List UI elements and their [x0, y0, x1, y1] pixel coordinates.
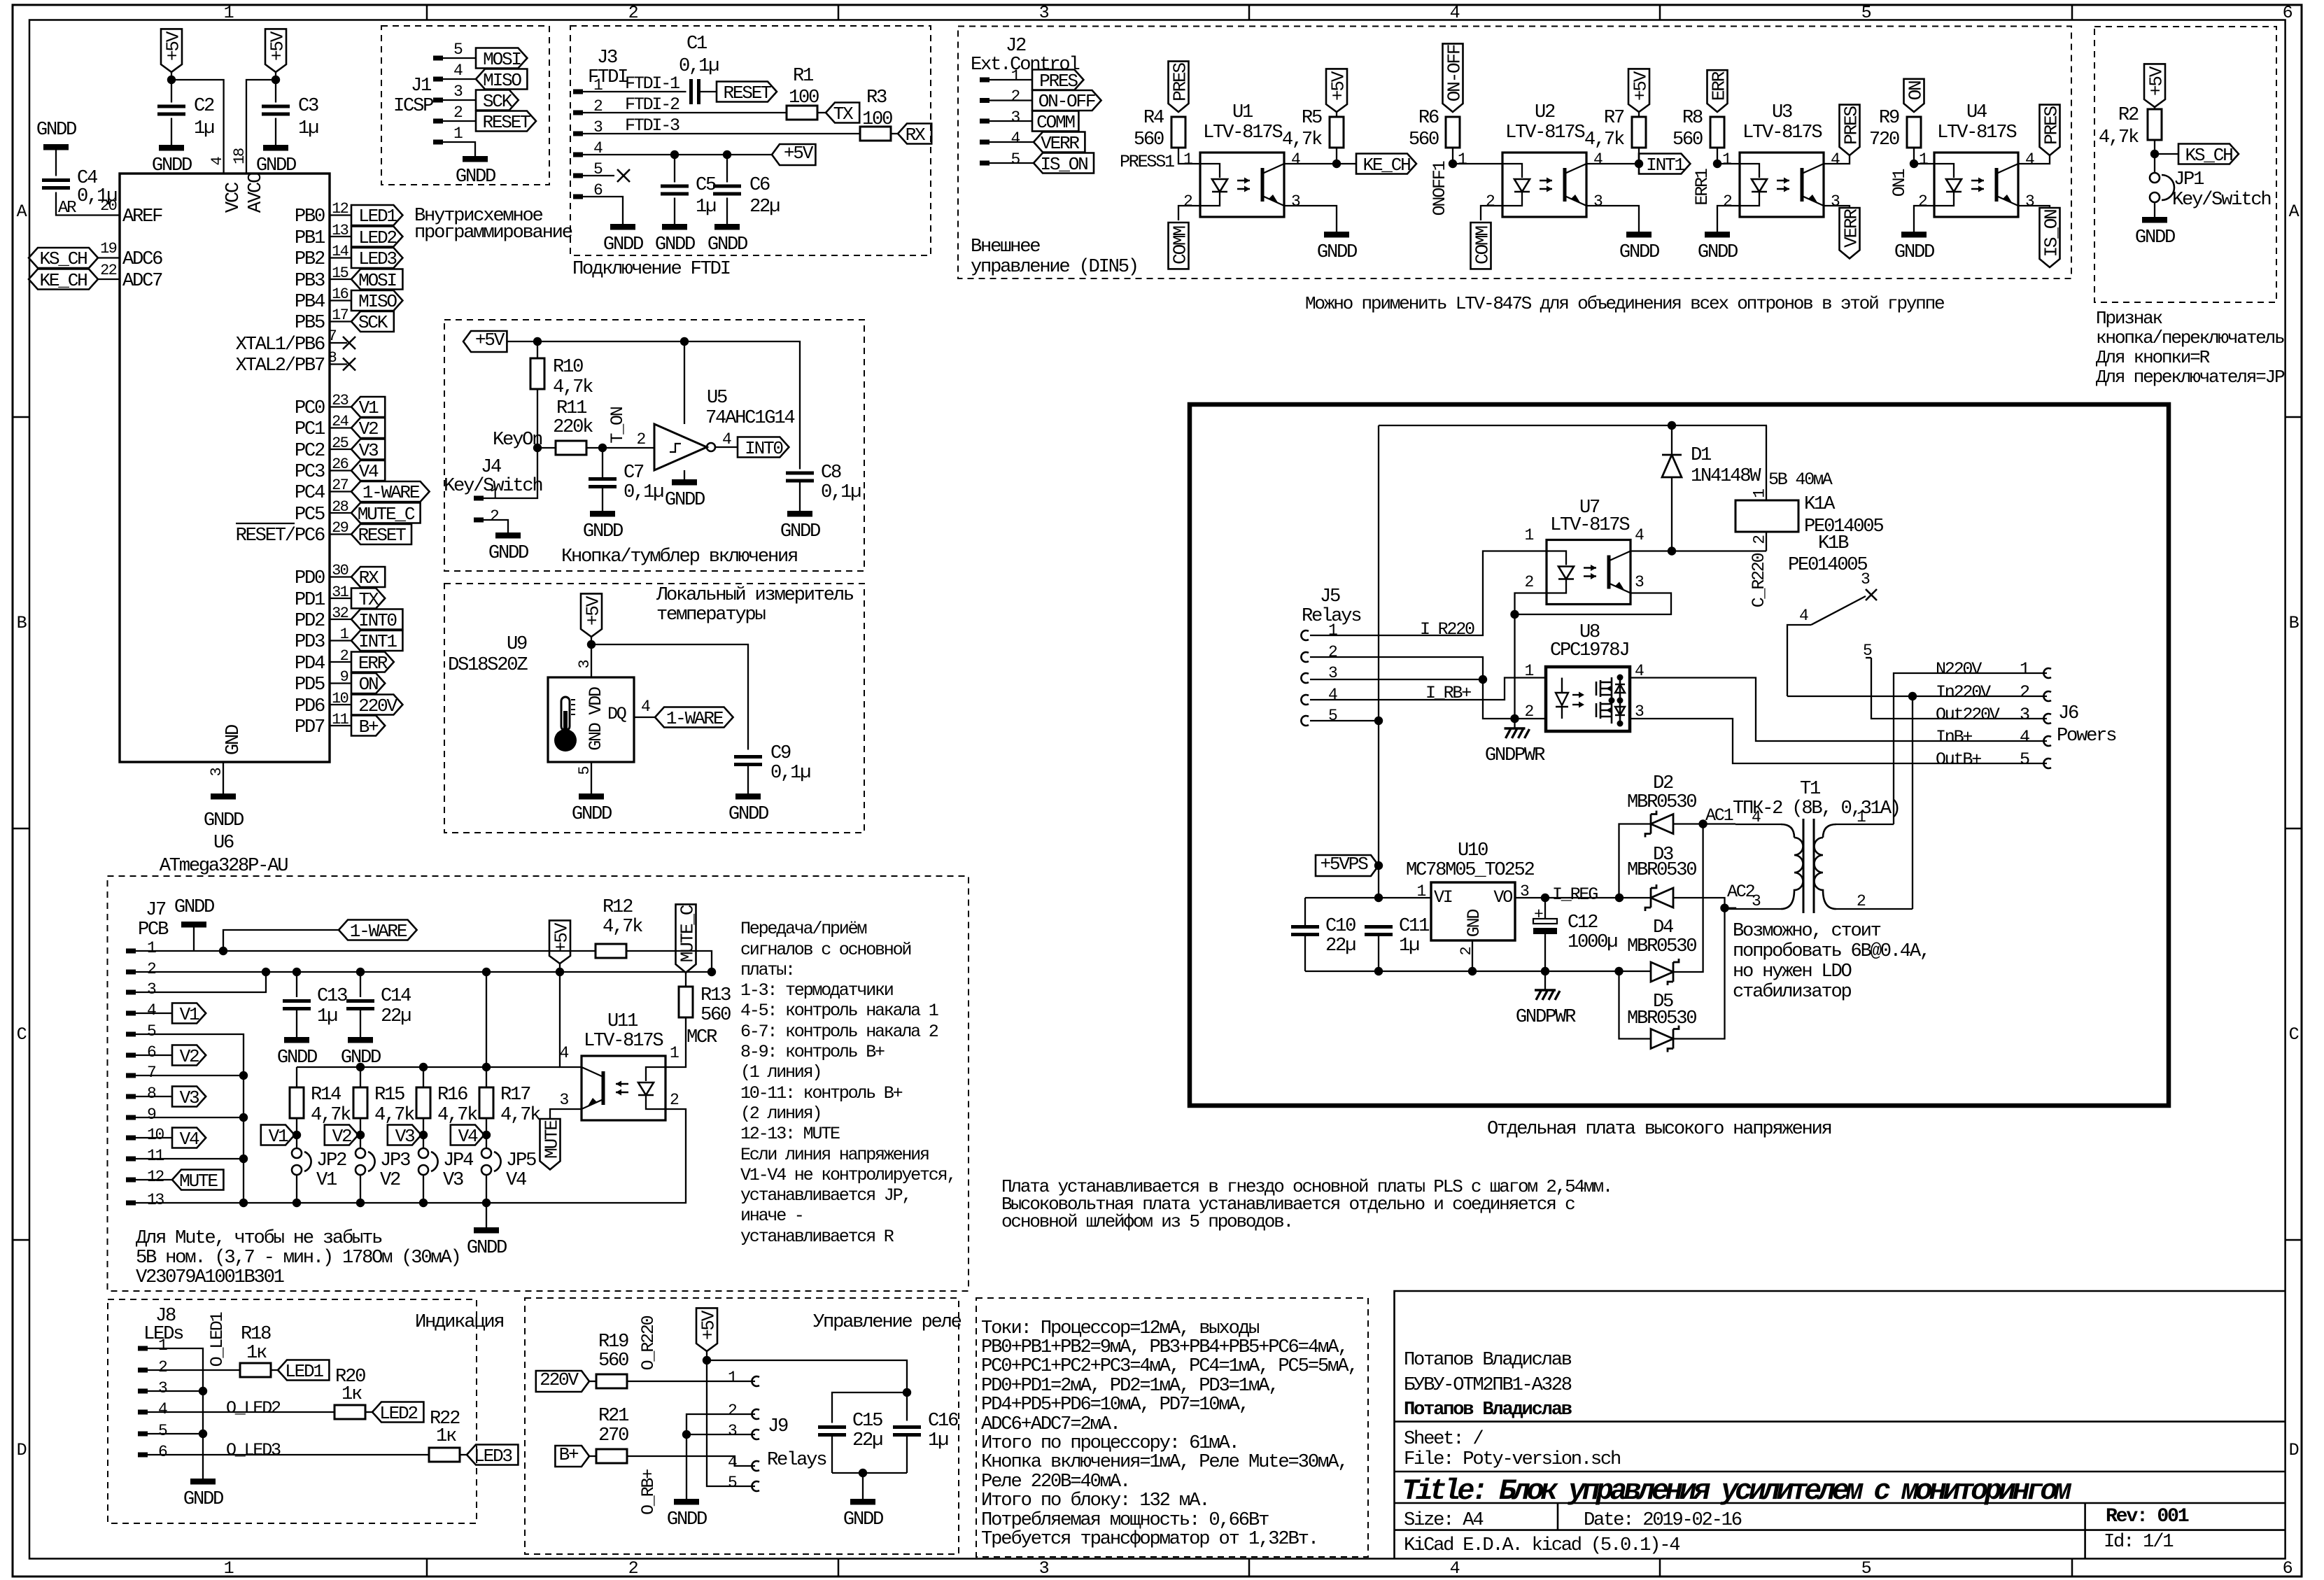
svg-text:V3: V3: [443, 1169, 463, 1191]
wire N220V: [1894, 673, 2047, 824]
svg-text:V2: V2: [180, 1046, 199, 1067]
svg-text:22µ: 22µ: [1325, 935, 1355, 957]
power flag +5V J4: [463, 330, 507, 352]
capacitor C4: [42, 167, 117, 207]
ground GNDD under U6: [211, 793, 236, 800]
svg-text:B: B: [2289, 613, 2300, 633]
junction: [1713, 160, 1721, 168]
svg-text:Внешнее: Внешнее: [971, 236, 1040, 258]
net label KS_CH at ADC6: [29, 240, 120, 269]
svg-text:стабилизатор: стабилизатор: [1733, 981, 1852, 1003]
svg-text:J1: J1: [411, 75, 431, 97]
svg-text:2: 2: [490, 507, 499, 526]
svg-text:AREF: AREF: [122, 206, 162, 227]
svg-text:KS_CH: KS_CH: [39, 248, 87, 269]
wire U1 pin2 to COMM: [1178, 192, 1200, 220]
svg-text:1: 1: [224, 3, 234, 23]
svg-text:VERR: VERR: [1041, 133, 1079, 154]
svg-text:Индикация: Индикация: [415, 1311, 503, 1333]
svg-text:1к: 1к: [341, 1383, 362, 1405]
svg-text:FTDI-3: FTDI-3: [625, 115, 679, 136]
svg-text:Требуется трансформатор от 1,3: Требуется трансформатор от 1,32Вт.: [981, 1528, 1318, 1550]
svg-text:2: 2: [1010, 87, 1020, 106]
svg-text:LED2: LED2: [379, 1403, 417, 1424]
svg-text:I_RB+: I_RB+: [1425, 683, 1471, 703]
resistor R6: [1409, 107, 1502, 164]
svg-text:1-WARE: 1-WARE: [362, 482, 420, 503]
svg-text:U6: U6: [213, 832, 234, 854]
svg-text:1: 1: [2020, 659, 2029, 679]
svg-text:4: 4: [1799, 607, 1808, 625]
svg-text:GNDD: GNDD: [603, 234, 643, 255]
junction: [533, 337, 689, 346]
svg-text:6: 6: [2283, 3, 2293, 23]
net label MUTE_C: [351, 503, 421, 526]
dashed box J3 FTDI: [570, 26, 931, 255]
svg-text:GNDD: GNDD: [728, 803, 768, 825]
svg-text:ERR: ERR: [1708, 71, 1729, 101]
net label SCK: [476, 90, 519, 113]
net label MISO: [476, 69, 527, 92]
ground GNDD J1: [456, 156, 495, 188]
svg-text:3: 3: [158, 1379, 167, 1397]
svg-text:RESET/PC6: RESET/PC6: [236, 525, 325, 546]
svg-text:2: 2: [1918, 192, 1927, 211]
svg-text:C5: C5: [696, 174, 716, 196]
wire U4 pin3 to IS_ON: [2018, 192, 2050, 211]
wire U3 pin2 to ground: [1717, 192, 1740, 232]
svg-text:O_LED1: O_LED1: [207, 1312, 227, 1367]
svg-text:Relays: Relays: [767, 1449, 826, 1471]
net label V3: [351, 439, 385, 462]
junction: [239, 1071, 248, 1207]
svg-text:2: 2: [1750, 535, 1768, 544]
svg-text:4,7k: 4,7k: [437, 1104, 477, 1126]
svg-text:R2: R2: [2118, 104, 2139, 126]
svg-text:PD3: PD3: [295, 631, 325, 653]
wire U1 pin3 to ground: [1284, 192, 1337, 232]
svg-text:XTAL2/PB7: XTAL2/PB7: [236, 355, 325, 376]
svg-text:0,1µ: 0,1µ: [77, 185, 117, 207]
svg-text:PB4: PB4: [295, 291, 325, 313]
wire: [330, 392, 351, 409]
svg-text:PRES: PRES: [1039, 71, 1078, 92]
wire O_LED2: [148, 1398, 334, 1418]
wire J4 pin1 to KeyOn: [484, 448, 537, 498]
svg-text:100: 100: [862, 108, 892, 130]
svg-text:In220V: In220V: [1936, 682, 1991, 703]
svg-text:22µ: 22µ: [749, 196, 780, 218]
net label RESET: [351, 524, 411, 546]
caption signal list: [740, 919, 955, 1247]
global label COMM flag: [1169, 223, 1191, 269]
power +5V above R5: [1326, 69, 1348, 112]
svg-text:25: 25: [332, 435, 348, 452]
svg-text:Size: A4: Size: A4: [1404, 1509, 1483, 1531]
junction: [262, 968, 716, 976]
svg-text:R12: R12: [603, 896, 633, 918]
svg-text:V1: V1: [359, 397, 379, 418]
global label IS_ON flag: [2040, 208, 2062, 267]
global label COMM flag 2: [1471, 223, 1493, 269]
svg-text:3: 3: [1291, 192, 1300, 211]
svg-text:1: 1: [1183, 150, 1192, 169]
optocoupler U11 LTV-817S: [559, 1010, 679, 1120]
transformer T1: [1725, 778, 1913, 913]
svg-text:ONOFF1: ONOFF1: [1430, 161, 1450, 216]
svg-text:R5: R5: [1302, 107, 1322, 129]
svg-text:C9: C9: [770, 742, 791, 764]
svg-text:22: 22: [100, 262, 116, 279]
svg-text:C8: C8: [821, 462, 841, 484]
power +5V above R2: [2144, 64, 2167, 107]
svg-text:8: 8: [147, 1085, 156, 1103]
svg-text:File: Poty-version.sch: File: Poty-version.sch: [1404, 1448, 1620, 1470]
svg-text:4: 4: [1010, 129, 1020, 148]
svg-text:KE_CH: KE_CH: [39, 270, 87, 291]
wire J5 pin3: [1310, 675, 1547, 719]
wire O_LED3: [148, 1440, 429, 1460]
net label 1-WARE: [655, 707, 733, 730]
resistor R7: [1584, 107, 1646, 164]
svg-text:1-3: термодатчики: 1-3: термодатчики: [740, 980, 893, 1001]
svg-text:сигналов с основной: сигналов с основной: [740, 940, 910, 960]
svg-text:15: 15: [332, 264, 348, 282]
wire U10 pin2: [1472, 940, 1473, 971]
wire: [330, 626, 351, 643]
svg-text:10: 10: [147, 1126, 164, 1144]
diode D3 MBR0530: [1619, 844, 1725, 911]
svg-text:(2 линия): (2 линия): [740, 1103, 821, 1124]
wire J4 pin2 to ground: [484, 520, 508, 532]
resistor R15: [353, 1067, 414, 1135]
ground GNDD under C7: [583, 511, 623, 542]
net label C_R220: [1749, 553, 1769, 607]
jumper JP2: [292, 1135, 346, 1203]
svg-text:иначе -: иначе -: [740, 1206, 803, 1226]
capacitor C15: [818, 1392, 907, 1473]
ground GNDD U9: [572, 793, 612, 825]
net label MOSI: [351, 269, 402, 292]
svg-text:23: 23: [332, 392, 348, 409]
svg-text:3: 3: [1039, 3, 1049, 23]
global label PRES flag: [1169, 62, 1191, 112]
power flag +5VPS: [1316, 854, 1383, 876]
svg-text:программирование: программирование: [414, 222, 572, 244]
svg-text:720: 720: [1869, 129, 1899, 150]
wire INT0: [715, 446, 738, 448]
svg-text:MOSI: MOSI: [483, 49, 521, 70]
svg-text:ERR1: ERR1: [1692, 169, 1712, 205]
svg-text:Date: 2019-02-16: Date: 2019-02-16: [1584, 1509, 1742, 1531]
svg-text:основной шлейфом из 5 проводов: основной шлейфом из 5 проводов.: [1001, 1211, 1293, 1232]
net label V1: [261, 1125, 301, 1148]
junction: [1635, 160, 1643, 168]
svg-text:D: D: [17, 1440, 27, 1460]
svg-text:AC1: AC1: [1705, 805, 1733, 826]
svg-text:PB2: PB2: [295, 248, 325, 270]
wire J5 pin5 to +5VPS rail: [1310, 717, 1383, 725]
svg-text:V4: V4: [359, 461, 379, 482]
svg-text:J3: J3: [597, 47, 617, 69]
ground GNDD J4: [488, 532, 528, 564]
svg-text:R7: R7: [1604, 107, 1624, 129]
ground GNDD U1: [1317, 232, 1357, 263]
svg-text:LED1: LED1: [358, 206, 397, 227]
resistor R18: [240, 1323, 278, 1377]
svg-text:3: 3: [453, 83, 463, 101]
svg-text:18: 18: [231, 148, 248, 164]
wire pin6 to ground: [583, 197, 623, 224]
svg-text:1: 1: [1722, 150, 1731, 169]
svg-text:560: 560: [1409, 129, 1439, 150]
svg-text:GNDD: GNDD: [667, 1509, 707, 1530]
svg-text:4,7k: 4,7k: [1584, 129, 1624, 150]
svg-text:4: 4: [722, 430, 731, 449]
svg-text:4: 4: [147, 1001, 156, 1020]
global label MUTE flag: [540, 1119, 563, 1169]
ground GNDD JP1: [2135, 217, 2175, 248]
ground GNDD under C2: [152, 145, 192, 176]
svg-text:LED1: LED1: [285, 1361, 323, 1382]
svg-text:5: 5: [158, 1422, 167, 1440]
ground GNDD under U5: [665, 479, 705, 511]
svg-text:O_R220: O_R220: [638, 1316, 659, 1370]
svg-text:ON1: ON1: [1889, 169, 1910, 197]
svg-text:Подключение FTDI: Подключение FTDI: [572, 258, 730, 280]
net label V2: [325, 1125, 365, 1148]
connector J4 Key/Switch: [444, 456, 542, 526]
ground GNDD above C4: [36, 119, 76, 150]
svg-text:1-WARE: 1-WARE: [666, 708, 724, 729]
wire J7 pin2 +5V rail: [136, 971, 712, 973]
svg-text:4: 4: [1450, 3, 1460, 23]
svg-text:4: 4: [158, 1400, 167, 1418]
svg-text:11: 11: [147, 1147, 164, 1165]
dashed box indication J8: [108, 1299, 477, 1523]
wire: [330, 584, 351, 601]
capacitor C8: [786, 462, 861, 511]
caption separate HV board: [1487, 1118, 1831, 1140]
svg-text:4: 4: [1593, 150, 1603, 169]
svg-text:4: 4: [2020, 727, 2029, 747]
svg-text:GNDD: GNDD: [183, 1488, 223, 1510]
svg-text:4: 4: [453, 62, 463, 80]
svg-text:GNDD: GNDD: [36, 119, 76, 141]
svg-text:3: 3: [728, 1422, 737, 1440]
junction AC1: [1698, 805, 1735, 828]
svg-text:Отдельная плата высокого напря: Отдельная плата высокого напряжения: [1487, 1118, 1831, 1140]
svg-text:INT0: INT0: [745, 438, 783, 459]
relay switch K1B: [1787, 532, 2047, 719]
svg-text:V3: V3: [180, 1087, 199, 1108]
svg-text:V3: V3: [395, 1126, 415, 1147]
dashed box relay control J9: [525, 1298, 959, 1554]
svg-text:+5V: +5V: [784, 143, 814, 164]
wire J8 common: [148, 1348, 203, 1479]
svg-text:InB+: InB+: [1936, 727, 1972, 747]
svg-text:9: 9: [147, 1106, 156, 1124]
svg-text:LTV-817S: LTV-817S: [1550, 514, 1629, 536]
resistor R4: [1134, 107, 1185, 150]
resistor R19: [589, 1331, 755, 1388]
svg-text:74AHC1G14: 74AHC1G14: [705, 407, 794, 429]
resistor R14: [290, 1067, 351, 1135]
svg-text:V4: V4: [458, 1126, 478, 1147]
wire: [330, 200, 351, 218]
svg-text:GNDD: GNDD: [572, 803, 612, 825]
svg-text:16: 16: [332, 285, 348, 303]
wire J7 pin1 1-WARE: [136, 930, 596, 955]
svg-text:GNDD: GNDD: [256, 155, 296, 176]
svg-text:GNDD: GNDD: [1894, 241, 1934, 263]
svg-text:26: 26: [332, 456, 348, 473]
wire: [330, 264, 351, 282]
svg-text:2: 2: [628, 3, 638, 23]
svg-text:4: 4: [641, 698, 650, 716]
power +5V above R7: [1628, 69, 1651, 112]
diode D4 MBR0530: [1619, 824, 1703, 986]
svg-text:PC3: PC3: [295, 461, 325, 483]
caption local temperature meter: [656, 584, 854, 626]
svg-text:1µ: 1µ: [317, 1006, 337, 1027]
svg-text:13: 13: [147, 1191, 164, 1209]
svg-text:1к: 1к: [436, 1425, 456, 1447]
svg-text:1µ: 1µ: [194, 118, 214, 139]
jumper JP3: [355, 1135, 410, 1203]
svg-text:PD6: PD6: [295, 696, 325, 717]
caption board install note: [1001, 1176, 1612, 1232]
wire: [330, 668, 351, 686]
svg-text:5: 5: [453, 41, 463, 59]
wire J7 pin3 riser: [136, 972, 266, 992]
svg-text:4: 4: [1450, 1558, 1460, 1579]
svg-text:C2: C2: [194, 95, 214, 117]
svg-text:5В 40мА: 5В 40мА: [1768, 470, 1833, 490]
resistor R11: [553, 397, 654, 455]
wire O_LED1: [148, 1312, 240, 1370]
svg-text:FTDI-1: FTDI-1: [625, 73, 679, 94]
svg-text:ADC7: ADC7: [122, 270, 162, 292]
ic U8 CPC1978J: [1524, 621, 1644, 731]
svg-text:Id: 1/1: Id: 1/1: [2104, 1531, 2173, 1553]
svg-text:5: 5: [147, 1022, 156, 1041]
svg-text:AC2: AC2: [1727, 882, 1755, 902]
svg-text:JP3: JP3: [380, 1150, 410, 1171]
wire C15 C16 ground: [832, 1469, 907, 1499]
svg-text:5: 5: [2020, 749, 2029, 770]
svg-text:AVCC: AVCC: [245, 172, 267, 213]
svg-text:7: 7: [328, 327, 337, 345]
junction: [167, 76, 280, 84]
svg-text:MCR: MCR: [686, 1027, 717, 1048]
svg-text:R8: R8: [1682, 107, 1703, 129]
svg-text:J5: J5: [1320, 586, 1340, 607]
wire: [330, 477, 351, 494]
svg-text:+: +: [1534, 905, 1543, 924]
svg-text:V2: V2: [332, 1126, 351, 1147]
resistor R8: [1672, 107, 1740, 164]
net label LED2: [372, 1402, 423, 1425]
ground GNDD at J7 pin1: [174, 896, 214, 951]
svg-text:2: 2: [340, 647, 348, 665]
svg-text:+5V: +5V: [1630, 71, 1651, 101]
svg-text:Можно применить LTV-847S для о: Можно применить LTV-847S для объединения…: [1305, 293, 1944, 314]
svg-text:TX: TX: [833, 104, 854, 125]
svg-text:2: 2: [453, 104, 463, 122]
svg-text:MBR0530: MBR0530: [1627, 791, 1696, 813]
wire U4 pin2 to ground: [1914, 192, 1934, 232]
svg-text:INT0: INT0: [358, 610, 397, 631]
svg-text:Потапов Владислав: Потапов Владислав: [1404, 1349, 1572, 1371]
svg-text:C3: C3: [298, 95, 318, 117]
svg-text:4,7k: 4,7k: [2099, 127, 2139, 148]
global label ON flag: [1904, 79, 1927, 112]
resistor R13: [679, 973, 731, 1026]
svg-text:CPC1978J: CPC1978J: [1550, 640, 1628, 661]
svg-text:C_R220: C_R220: [1749, 553, 1769, 607]
caption FTDI connection: [572, 258, 730, 280]
svg-text:U10: U10: [1458, 840, 1488, 861]
svg-text:5В ном. (3,7 - мин.) 178Ом (30: 5В ном. (3,7 - мин.) 178Ом (30мА): [136, 1247, 460, 1269]
svg-text:220V: 220V: [540, 1369, 579, 1390]
svg-text:Потапов Владислав: Потапов Владислав: [1404, 1399, 1572, 1420]
net label RESET: [476, 111, 536, 134]
svg-text:MBR0530: MBR0530: [1627, 936, 1696, 957]
svg-text:GNDD: GNDD: [1317, 241, 1357, 263]
svg-text:R13: R13: [700, 985, 731, 1006]
wire: [330, 456, 351, 473]
title block: [1395, 1291, 2286, 1559]
ground GNDD U4: [1894, 232, 1934, 263]
svg-text:5: 5: [1861, 1558, 1871, 1579]
wire U2 pin4 INT1: [1586, 150, 1639, 169]
svg-text:I_REG: I_REG: [1552, 884, 1598, 905]
svg-text:PRES: PRES: [1840, 106, 1861, 145]
power +5V at VCC: [161, 29, 183, 72]
svg-text:PC5: PC5: [295, 504, 325, 526]
wire AVCC: [231, 72, 276, 174]
wire In220V: [1787, 692, 2047, 909]
svg-text:OutB+: OutB+: [1936, 749, 1981, 770]
svg-text:INT1: INT1: [1646, 155, 1684, 176]
wire KeyOn node: [493, 429, 556, 452]
net label V2 pin6: [172, 1045, 206, 1068]
svg-text:GNDD: GNDD: [843, 1509, 883, 1530]
wire FTDI-2: [583, 94, 787, 115]
svg-text:R16: R16: [437, 1084, 467, 1106]
svg-text:3: 3: [1010, 108, 1020, 127]
wire U1 pin4 KE_CH: [1284, 150, 1356, 169]
svg-text:IS_ON: IS_ON: [2041, 210, 2062, 258]
resistor R22: [429, 1408, 467, 1462]
resistor R12: [596, 896, 712, 972]
svg-text:13: 13: [332, 222, 348, 239]
svg-text:но нужен LDO: но нужен LDO: [1733, 961, 1852, 982]
svg-text:O_LED2: O_LED2: [226, 1398, 281, 1418]
jumper JP4: [418, 1135, 473, 1203]
ground GNDPWR U8: [1485, 719, 1545, 766]
net label INT1: [1639, 154, 1690, 176]
wire U3 pin3 to VERR: [1824, 192, 1850, 211]
caption use LTV-847S: [1305, 293, 1944, 314]
svg-text:PD0: PD0: [295, 567, 325, 589]
capacitor C16: [893, 1410, 958, 1473]
svg-text:2: 2: [670, 1091, 679, 1109]
svg-text:2: 2: [628, 1558, 638, 1579]
net label ON1: [1889, 150, 1928, 197]
svg-text:PRESS1: PRESS1: [1120, 152, 1174, 172]
